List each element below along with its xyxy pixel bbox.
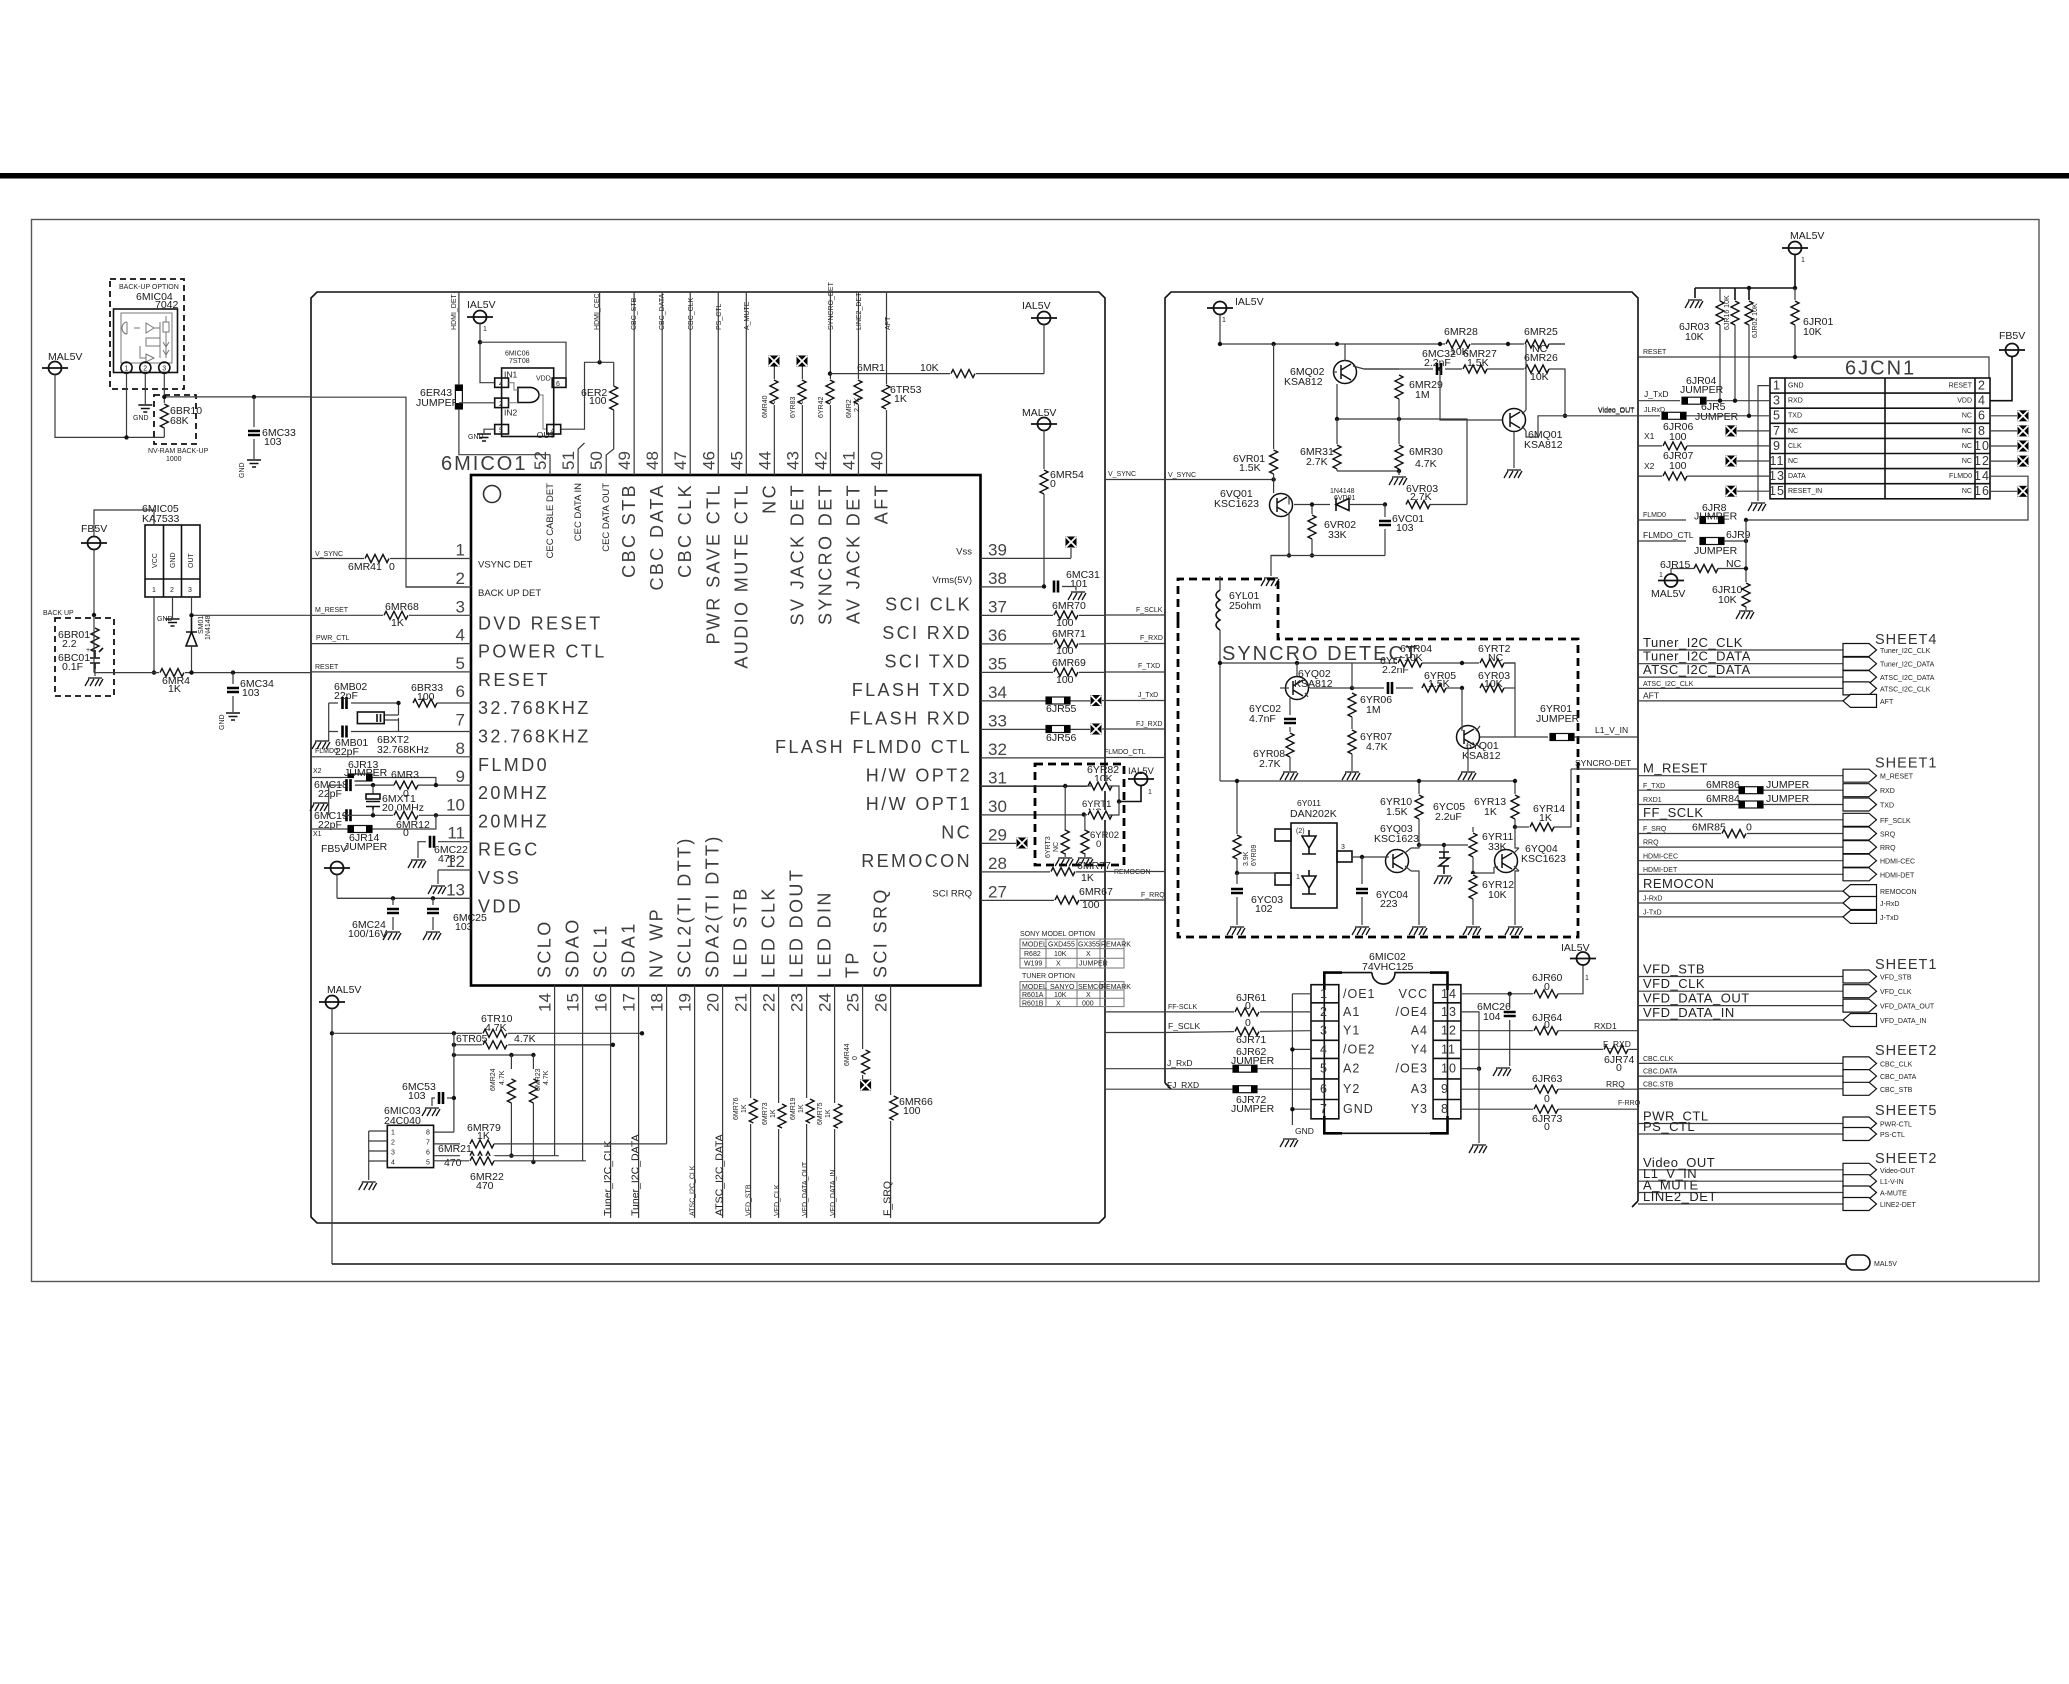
svg-text:8: 8	[426, 1130, 430, 1137]
jumper 6YR01	[1480, 736, 1548, 738]
svg-text:5: 5	[426, 1160, 430, 1167]
svg-text:25: 25	[844, 993, 863, 1012]
svg-text:68K: 68K	[170, 415, 189, 427]
svg-text:TXD: TXD	[1788, 413, 1802, 420]
svg-text:MAL5V: MAL5V	[1651, 588, 1685, 600]
resistor 6YR08	[1285, 732, 1295, 758]
svg-text:VFD_CLK: VFD_CLK	[1880, 989, 1912, 996]
resistor 6TR53	[881, 384, 891, 410]
ground 6YR12	[1463, 927, 1481, 935]
svg-text:DATA: DATA	[1788, 473, 1806, 480]
svg-text:6MR44: 6MR44	[844, 1043, 851, 1066]
wire vss pin12	[437, 870, 439, 884]
svg-text:GND: GND	[219, 714, 226, 730]
svg-text:2: 2	[1978, 379, 1986, 393]
svg-text:CBC_CLK: CBC_CLK	[1880, 1061, 1913, 1068]
svg-text:103: 103	[408, 1090, 426, 1102]
svg-text:FLMD0: FLMD0	[478, 755, 549, 775]
svg-text:/OE3: /OE3	[1396, 1062, 1429, 1076]
resistor 6YR07	[1351, 717, 1353, 730]
svg-text:Y1: Y1	[1343, 1024, 1360, 1038]
svg-text:6MR41: 6MR41	[348, 561, 382, 573]
svg-text:A3: A3	[1411, 1082, 1428, 1096]
svg-text:38: 38	[988, 569, 1007, 588]
svg-text:MODEL: MODEL	[1022, 941, 1047, 948]
svg-text:TXD: TXD	[1880, 803, 1894, 810]
resistor 6MR23	[532, 1055, 534, 1069]
svg-text:28: 28	[988, 854, 1007, 873]
svg-text:1K: 1K	[391, 617, 404, 629]
svg-text:A-MUTE: A-MUTE	[1880, 1191, 1907, 1198]
resistor 6MR4	[159, 668, 185, 678]
IC pin 1 stub	[311, 558, 471, 560]
power FB5V right	[1999, 344, 2025, 357]
IC pin 34 stub	[981, 700, 1091, 702]
IC pin 2 stub	[406, 586, 471, 588]
svg-text:6JR55: 6JR55	[1046, 703, 1077, 715]
IC pin 11 stub	[426, 841, 471, 843]
resistor 6JR10	[1741, 582, 1751, 608]
power IAL5V top	[1031, 312, 1057, 325]
svg-text:1: 1	[1296, 874, 1300, 881]
wire 6YQ03 collector	[1411, 845, 1419, 848]
svg-text:10K: 10K	[1054, 992, 1067, 999]
resistor 6YR14	[1515, 826, 1530, 828]
svg-text:FJ_RXD: FJ_RXD	[1136, 721, 1162, 728]
jumper 6JR56	[1046, 726, 1070, 733]
svg-text:NC: NC	[1053, 842, 1060, 852]
svg-text:CBC DATA: CBC DATA	[647, 483, 667, 591]
svg-text:GND: GND	[170, 552, 177, 568]
svg-text:/OE1: /OE1	[1343, 987, 1376, 1001]
svg-text:6: 6	[456, 682, 465, 701]
svg-text:9: 9	[1773, 439, 1781, 453]
svg-text:6MR84: 6MR84	[1706, 793, 1740, 805]
svg-text:BACK UP DET: BACK UP DET	[478, 588, 541, 599]
svg-text:27: 27	[988, 882, 1007, 901]
ground 6MC34	[232, 696, 234, 712]
svg-text:VCC: VCC	[1399, 987, 1428, 1001]
resistor 6JR07	[1638, 475, 1663, 477]
svg-text:RXD: RXD	[1880, 788, 1895, 795]
IC pin 25 stub	[862, 986, 864, 1080]
svg-text:6VD01: 6VD01	[1334, 495, 1356, 502]
svg-text:VFD_STB: VFD_STB	[1880, 975, 1912, 982]
wire reset rail	[94, 672, 311, 674]
svg-text:SCI CLK: SCI CLK	[885, 594, 972, 614]
resistor 6BR10	[163, 373, 165, 404]
resistor 6MR73	[777, 1103, 787, 1129]
svg-text:7: 7	[456, 711, 465, 730]
svg-text:6JR56: 6JR56	[1046, 732, 1077, 744]
resistor 6YR11	[1472, 827, 1474, 833]
wire pin52 net	[549, 455, 551, 475]
svg-text:2: 2	[499, 401, 503, 408]
svg-text:3: 3	[391, 1150, 395, 1157]
svg-text:29: 29	[988, 825, 1007, 844]
IC pin 32 stub	[981, 757, 1106, 759]
svg-text:M_RESET: M_RESET	[1880, 774, 1914, 781]
svg-text:1K: 1K	[825, 1109, 832, 1118]
svg-text:1: 1	[1320, 987, 1328, 1001]
svg-text:SDAO: SDAO	[563, 917, 583, 978]
svg-text:NC: NC	[1962, 428, 1972, 435]
resistor 6MR66	[889, 1095, 899, 1121]
svg-text:GX355: GX355	[1078, 941, 1100, 948]
svg-text:6MICO1: 6MICO1	[441, 453, 527, 475]
svg-text:21: 21	[732, 993, 751, 1012]
svg-text:RXD1: RXD1	[1643, 797, 1662, 804]
svg-text:6MR68: 6MR68	[385, 601, 419, 613]
power MAL5V jr15	[1658, 574, 1684, 587]
right sub-panel frame	[1165, 292, 1638, 1201]
svg-text:6YR83: 6YR83	[790, 396, 797, 418]
svg-text:FB5V: FB5V	[321, 843, 347, 855]
svg-text:Tuner_I2C_DATA: Tuner_I2C_DATA	[630, 1134, 642, 1216]
svg-text:W199: W199	[1024, 961, 1042, 968]
capacitor 6MC26	[1509, 994, 1511, 1007]
svg-text:32: 32	[988, 740, 1007, 759]
svg-text:PS_CTL: PS_CTL	[716, 303, 723, 330]
resistor 6TR10	[482, 1028, 508, 1038]
svg-text:SM01: SM01	[198, 616, 205, 634]
xbox jcn6	[2018, 410, 2029, 421]
IC 6MIC02 body	[1324, 973, 1447, 1134]
svg-text:6MR30: 6MR30	[1409, 446, 1443, 458]
svg-text:FLASH RXD: FLASH RXD	[849, 708, 972, 728]
svg-text:4.7K: 4.7K	[1366, 741, 1388, 753]
svg-text:A1: A1	[1343, 1005, 1360, 1019]
svg-text:6: 6	[1978, 409, 1986, 423]
svg-text:8: 8	[1441, 1102, 1449, 1116]
svg-text:CBC_DATA: CBC_DATA	[1880, 1074, 1917, 1081]
IC pin 16 stub	[610, 986, 612, 1219]
svg-text:32.768KHz: 32.768KHz	[377, 744, 429, 756]
wire VCC net	[1461, 993, 1534, 995]
svg-text:RESET: RESET	[1643, 349, 1667, 356]
svg-text:F_SRQ: F_SRQ	[882, 1181, 894, 1216]
svg-text:BACK UP: BACK UP	[43, 610, 74, 617]
svg-text:MAL5V: MAL5V	[1022, 407, 1056, 419]
capacitor 6YC04	[1361, 857, 1363, 884]
svg-text:MODEL: MODEL	[1022, 984, 1047, 991]
svg-text:RESET: RESET	[478, 670, 550, 690]
capacitor 6MC33	[253, 397, 255, 427]
svg-text:CEC DATA IN: CEC DATA IN	[573, 483, 584, 541]
wire 6YQ04 emitter	[1515, 871, 1519, 925]
svg-text:22pF: 22pF	[335, 746, 359, 758]
resistor 6MR1	[828, 371, 832, 375]
IC pin 42 stub	[829, 292, 831, 475]
ground OE3	[1469, 1145, 1487, 1153]
svg-text:36: 36	[988, 626, 1007, 645]
svg-text:F_RRQ: F_RRQ	[1141, 892, 1165, 899]
svg-text:20MHZ: 20MHZ	[478, 783, 549, 803]
svg-text:ATSC_I2C_DATA: ATSC_I2C_DATA	[1880, 675, 1935, 682]
capacitor 6YC01	[1384, 681, 1396, 695]
ground vss	[428, 886, 446, 894]
NV-RAM dashed box	[154, 395, 196, 444]
svg-text:6MR1: 6MR1	[857, 362, 885, 374]
wire MAL5V bottom drop	[331, 1009, 333, 1265]
capacitor 6MB02	[339, 696, 351, 710]
svg-text:V_SYNC: V_SYNC	[1108, 471, 1136, 478]
svg-text:/OE4: /OE4	[1396, 1005, 1429, 1019]
wire fb5v to vcc	[94, 510, 154, 537]
IC pin 23 stub	[806, 986, 808, 1219]
svg-text:12: 12	[1441, 1024, 1457, 1038]
wire 6MQ01 base	[1440, 369, 1502, 420]
diode SM01 1N4148	[186, 618, 197, 646]
svg-text:RXD: RXD	[1788, 398, 1803, 405]
svg-text:AV JACK DET: AV JACK DET	[843, 483, 863, 624]
svg-text:X2: X2	[1644, 461, 1655, 471]
wire gap f_sclk	[1105, 614, 1165, 616]
wire 6MQ01 collector up	[1525, 344, 1527, 410]
svg-text:5: 5	[1320, 1062, 1328, 1076]
net oval MAL5V bottom	[1846, 1255, 1870, 1270]
6MIC06 GND pin	[495, 425, 509, 435]
svg-text:11: 11	[447, 824, 465, 843]
svg-text:H/W OPT2: H/W OPT2	[866, 765, 972, 785]
svg-text:6MR40: 6MR40	[762, 395, 769, 418]
svg-text:10K: 10K	[1054, 951, 1067, 958]
svg-text:30: 30	[988, 797, 1007, 816]
svg-text:6YRT3: 6YRT3	[1045, 836, 1052, 858]
capacitor 6MB01	[339, 725, 351, 739]
resistor 6MR28	[1445, 339, 1471, 349]
svg-text:SHEET2: SHEET2	[1875, 1043, 1937, 1059]
jumper 6JR5	[1638, 415, 1660, 417]
svg-text:NV WP: NV WP	[647, 907, 667, 978]
svg-text:NV-RAM BACK-UP: NV-RAM BACK-UP	[148, 448, 209, 455]
svg-text:AFT: AFT	[885, 316, 892, 330]
svg-text:1: 1	[1585, 975, 1589, 982]
svg-text:1: 1	[1801, 257, 1805, 264]
wire vert 453	[453, 1033, 455, 1132]
svg-text:IAL5V: IAL5V	[1022, 300, 1051, 312]
xbox jcn11	[1726, 456, 1737, 467]
wire 6MIC03 pin8	[434, 1131, 454, 1133]
svg-text:10K: 10K	[1484, 678, 1503, 690]
IC pin 5 stub	[311, 671, 471, 673]
wire 6MIC04 pin1	[126, 373, 128, 437]
svg-text:5: 5	[456, 654, 465, 673]
ground xtal1	[312, 741, 330, 749]
svg-text:11: 11	[1770, 454, 1785, 468]
resistor 6MR67	[1054, 895, 1080, 905]
svg-text:6MR73: 6MR73	[762, 1102, 769, 1125]
svg-text:0: 0	[1096, 839, 1101, 850]
svg-text:NC: NC	[1962, 488, 1972, 495]
ground mal5v rail	[1685, 300, 1703, 308]
IC pin 46 stub	[717, 292, 719, 475]
svg-text:74VHC125: 74VHC125	[1362, 961, 1414, 973]
svg-text:42: 42	[811, 451, 830, 470]
resistor 6VR03	[1405, 500, 1431, 510]
resistor 6YR83	[797, 379, 807, 405]
svg-text:JUMPER: JUMPER	[1536, 713, 1580, 725]
svg-text:L1_V_IN: L1_V_IN	[1595, 725, 1628, 735]
svg-text:33K: 33K	[1488, 841, 1507, 853]
svg-text:FLMD0: FLMD0	[1643, 512, 1666, 519]
svg-text:2.2: 2.2	[62, 638, 77, 650]
svg-text:VSS: VSS	[478, 868, 521, 888]
transistor 6MQ01	[1503, 409, 1526, 432]
svg-text:F-RRQ: F-RRQ	[1618, 1100, 1641, 1107]
svg-text:KSA812: KSA812	[1524, 439, 1563, 451]
resistor 6YRT2	[1479, 658, 1505, 668]
svg-text:3: 3	[1320, 1024, 1328, 1038]
svg-text:1: 1	[1773, 379, 1781, 393]
svg-text:NC: NC	[1962, 458, 1972, 465]
ground regc	[408, 860, 426, 868]
svg-text:102: 102	[1255, 903, 1273, 915]
resistor 6MR30	[1398, 419, 1400, 445]
svg-text:X: X	[1056, 961, 1061, 968]
wire 6YQ01 base col	[1461, 688, 1463, 725]
wire 6MIC05 out	[191, 597, 193, 618]
wire gap remocon	[1105, 871, 1165, 873]
svg-text:REMOCON: REMOCON	[861, 851, 972, 871]
svg-text:V_SYNC: V_SYNC	[315, 551, 343, 558]
svg-text:19: 19	[676, 993, 695, 1012]
resistor 6YR03	[1479, 683, 1505, 693]
jumper 6JR62	[1233, 1065, 1257, 1072]
resistor 6JR73	[1461, 1108, 1534, 1110]
wire 6MIC05 pin1 down	[153, 597, 155, 673]
svg-text:34: 34	[988, 683, 1007, 702]
resistor 6YR12	[1468, 874, 1478, 900]
svg-text:103: 103	[455, 921, 473, 933]
svg-text:26: 26	[872, 993, 891, 1012]
svg-text:RESET: RESET	[315, 664, 339, 671]
svg-text:J_TxD: J_TxD	[1644, 389, 1669, 399]
ground 6MIC05	[166, 619, 180, 626]
svg-text:0.1F: 0.1F	[62, 661, 83, 673]
resistor 6MR79	[434, 1143, 460, 1145]
svg-text:JUMPER: JUMPER	[1694, 511, 1738, 523]
svg-text:JUMPER: JUMPER	[344, 767, 388, 779]
svg-text:6MR3: 6MR3	[391, 769, 419, 781]
svg-text:6MR21: 6MR21	[438, 1143, 472, 1155]
svg-text:RRQ: RRQ	[1880, 845, 1896, 852]
wire gap flmdo_ctl	[1105, 757, 1165, 759]
transistor 6YQ03	[1386, 850, 1409, 873]
IC pin 50 stub	[605, 474, 607, 476]
wire flmd vert	[1745, 520, 1747, 583]
transistor 6YQ04	[1495, 850, 1518, 873]
resistor 6JR71	[1234, 1027, 1260, 1037]
IC pin 47 stub	[689, 292, 691, 475]
xbox pin43	[797, 356, 808, 367]
svg-text:44: 44	[755, 451, 774, 470]
svg-text:4: 4	[391, 1160, 395, 1167]
svg-text:CBC.DATA: CBC.DATA	[1643, 1069, 1678, 1076]
svg-text:6JR71: 6JR71	[1236, 1034, 1267, 1046]
resistor 6MR70	[1053, 610, 1079, 620]
svg-text:33: 33	[988, 711, 1007, 730]
ground backup	[85, 678, 103, 686]
svg-text:REMARK: REMARK	[1101, 984, 1131, 991]
resistor 6JR61	[1234, 1007, 1260, 1017]
svg-text:Video_OUT: Video_OUT	[1598, 408, 1635, 415]
svg-text:5: 5	[499, 428, 503, 435]
resistor 6MR22	[434, 1160, 469, 1162]
svg-text:2: 2	[143, 366, 147, 373]
svg-text:J_TxD: J_TxD	[1138, 692, 1158, 699]
svg-text:MAL5V: MAL5V	[1790, 230, 1824, 242]
wire reset right	[1638, 357, 1989, 378]
capacitor 6MC22	[426, 835, 438, 849]
svg-text:PS_CTL: PS_CTL	[1643, 1119, 1695, 1134]
svg-text:1K: 1K	[1081, 872, 1094, 884]
svg-text:X1: X1	[313, 831, 322, 838]
IC pin 8 stub	[311, 756, 471, 758]
ground 6YC04	[1352, 927, 1370, 935]
svg-text:10K: 10K	[1404, 652, 1423, 664]
resistor 6BR33	[412, 698, 438, 708]
ground xtal2	[310, 803, 328, 811]
resistor 6MR77	[1050, 867, 1076, 877]
IC 6MIC04 body	[114, 309, 178, 373]
ground 6MQ01	[1513, 432, 1515, 469]
ground 6YC05	[1434, 876, 1452, 884]
resistor 6YR09	[1236, 781, 1238, 835]
wire flmd0 return	[1746, 476, 2028, 520]
wire fb5v down	[93, 550, 95, 673]
6MIC04 internal detail	[122, 322, 160, 362]
svg-text:18: 18	[648, 993, 667, 1012]
ground 6YC03	[1227, 927, 1245, 935]
svg-text:KSC1623: KSC1623	[1214, 498, 1259, 510]
wire M_RESET to 6MIC05	[192, 614, 311, 616]
resistor 6MR76	[748, 1098, 758, 1124]
IC 6MIC01 body	[471, 475, 981, 986]
svg-text:FF_SCLK: FF_SCLK	[1880, 818, 1911, 825]
svg-text:0: 0	[826, 400, 833, 404]
svg-text:DVD RESET: DVD RESET	[478, 613, 603, 633]
svg-text:6JR02 10K: 6JR02 10K	[1752, 303, 1759, 338]
svg-text:LED CLK: LED CLK	[759, 886, 779, 978]
svg-text:4.7K: 4.7K	[1415, 458, 1437, 470]
svg-text:470: 470	[476, 1180, 494, 1192]
svg-text:H/W OPT1: H/W OPT1	[866, 794, 972, 814]
svg-text:6JR15: 6JR15	[1660, 559, 1691, 571]
svg-text:FB5V: FB5V	[1999, 330, 2025, 342]
svg-text:J-TxD: J-TxD	[1643, 910, 1662, 917]
svg-text:1: 1	[125, 366, 129, 373]
xbox pin33	[1091, 724, 1102, 735]
power FB5V left	[81, 537, 107, 550]
svg-text:5: 5	[1773, 409, 1781, 423]
svg-text:CBC_STB: CBC_STB	[1880, 1087, 1913, 1094]
svg-text:SHEET1: SHEET1	[1875, 957, 1937, 973]
resistor 6MR27	[1462, 364, 1488, 374]
wire 6YD11 out	[1352, 856, 1385, 858]
crystal 6MXT1	[372, 785, 374, 815]
svg-text:MAL5V: MAL5V	[327, 984, 361, 996]
IC pin 24 stub	[834, 986, 836, 1219]
svg-text:51: 51	[559, 451, 578, 470]
wire 6MIC03 left bus	[369, 1131, 388, 1180]
svg-text:2: 2	[456, 569, 465, 588]
svg-text:6JCN1: 6JCN1	[1845, 358, 1916, 380]
IC pin 39 stub	[981, 557, 1072, 559]
svg-text:SDA2(TI DTT): SDA2(TI DTT)	[703, 834, 723, 978]
svg-text:RESET: RESET	[1949, 383, 1973, 390]
svg-text:ATSC_I2C_CLK: ATSC_I2C_CLK	[1880, 686, 1931, 693]
